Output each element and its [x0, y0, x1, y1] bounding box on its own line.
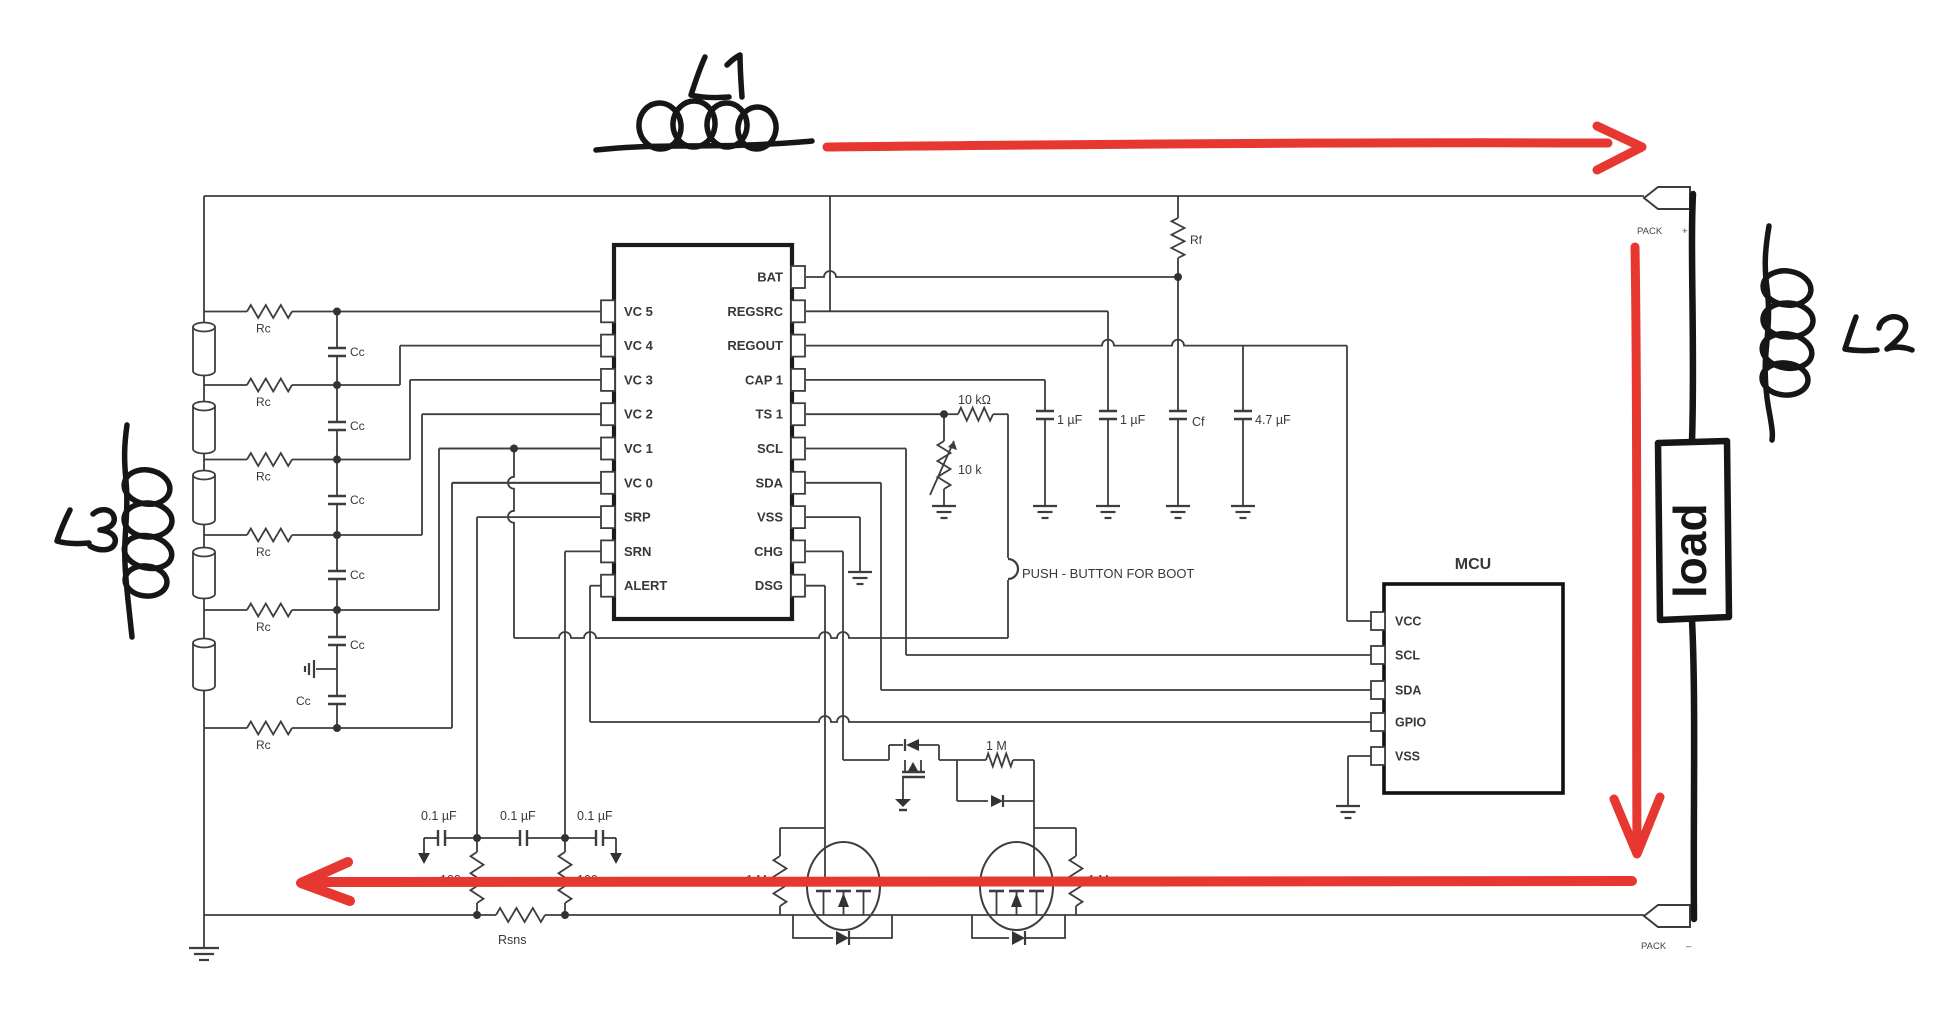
- svg-text:Rc: Rc: [256, 395, 271, 409]
- svg-text:Cc: Cc: [350, 638, 365, 652]
- battery cell B4: [193, 548, 215, 599]
- capacitor Cc5: [328, 637, 346, 645]
- label Rc 4: [256, 545, 271, 559]
- label load (handwritten): [1664, 503, 1716, 598]
- svg-text:–: –: [1686, 941, 1692, 952]
- label Cc4: [350, 568, 365, 582]
- pin VC 2 (left): [601, 403, 615, 425]
- ground 1uF #1: [1033, 506, 1057, 518]
- svg-text:1 M: 1 M: [986, 739, 1007, 753]
- wire REGSRC to 1uF cap #2: [806, 311, 1108, 411]
- wire MCU VSS to ground: [1348, 756, 1371, 806]
- label pin SRN: [624, 544, 651, 559]
- label Cf: [1192, 415, 1205, 429]
- node Rc2/Cc: [333, 381, 341, 389]
- label 10 k: [958, 463, 982, 477]
- pin SRN (left): [601, 540, 615, 562]
- inductor L1 (hand coil) loops: [636, 99, 779, 151]
- wire VC1 row: [439, 448, 601, 450]
- svg-text:1 µF: 1 µF: [1057, 413, 1083, 427]
- svg-text:GPIO: GPIO: [1395, 716, 1427, 730]
- svg-text:Cc: Cc: [296, 694, 311, 708]
- resistor 1M gate M1: [774, 828, 787, 915]
- svg-text:0.1 µF: 0.1 µF: [421, 809, 457, 823]
- wire VC0 down to row 6: [452, 482, 601, 484]
- battery cell B3: [193, 471, 215, 525]
- label pin SRP: [624, 510, 651, 525]
- svg-text:Rsns: Rsns: [498, 933, 526, 947]
- battery cell B1: [193, 323, 215, 376]
- wire REGSRC riser to top rail: [829, 196, 831, 311]
- resistor Rc row 2 and wire to VC4: [204, 346, 601, 392]
- IC body (battery monitor): [614, 245, 792, 619]
- pin MCU SDA: [1371, 681, 1385, 699]
- svg-text:REGOUT: REGOUT: [727, 338, 783, 353]
- wire push-button riser: [1007, 414, 1009, 638]
- label pin REGOUT: [727, 338, 783, 353]
- pin CHG (right): [791, 540, 805, 562]
- pin REGSRC (right): [791, 300, 805, 322]
- resistor Rc row 3 and wire to VC3: [204, 380, 601, 466]
- svg-text:VC 2: VC 2: [624, 407, 653, 422]
- svg-text:VC 3: VC 3: [624, 372, 653, 387]
- svg-text:CHG: CHG: [754, 544, 783, 559]
- MOSFET Q2 gate bar: [990, 883, 1044, 885]
- svg-text:SCL: SCL: [757, 441, 783, 456]
- wire Cc column seg5: [336, 579, 338, 637]
- hand wire PACK+ to load: [1692, 194, 1693, 441]
- wire Rf node down to Cf: [1177, 277, 1179, 411]
- node SRP filter: [473, 834, 481, 842]
- wire ALERT to MCU GPIO (hops DSG CHG): [590, 586, 1371, 722]
- svg-text:SDA: SDA: [756, 475, 784, 490]
- wire top rail (BAT+ to PACK+): [204, 195, 1644, 197]
- MCU body: [1384, 584, 1563, 793]
- pin MCU VCC: [1371, 612, 1385, 630]
- svg-text:Rc: Rc: [256, 738, 271, 752]
- label 1uF #2: [1120, 413, 1146, 427]
- capacitor Cc6: [328, 696, 346, 704]
- wire bottom rail right segment (Rsns to PACK-): [545, 914, 1644, 916]
- battery cell B2: [193, 402, 215, 454]
- label pin VC 2: [624, 407, 653, 422]
- label Rc 5: [256, 620, 271, 634]
- inductor L2 (hand coil) spine: [1765, 226, 1772, 440]
- wire BAT to Rf node (hop over REGSRC riser): [806, 271, 1178, 277]
- label pin VC 3: [624, 372, 653, 387]
- resistor 100 #1: [471, 838, 484, 915]
- annotation arrow left (bottom, red): [301, 862, 1632, 901]
- label MCU SCL: [1395, 649, 1420, 663]
- wire boot line to VC1 node (hops SRN ALERT DSG CHG): [514, 632, 1008, 638]
- wire Cc column seg3: [336, 430, 338, 496]
- wire 4.7uF tap: [1242, 346, 1244, 411]
- MOSFET Q1 (DSG) body: [807, 842, 880, 930]
- svg-text:VC 4: VC 4: [624, 338, 654, 353]
- label pin VSS: [757, 510, 783, 525]
- svg-text:Rf: Rf: [1190, 233, 1203, 247]
- capacitor Cc3: [328, 496, 346, 504]
- MOSFET Q1 stubs: [824, 891, 864, 915]
- resistor 10 kOhm: [944, 408, 1008, 421]
- label pin CHG: [754, 544, 783, 559]
- svg-text:Rc: Rc: [256, 545, 271, 559]
- pin BAT (right): [791, 266, 805, 288]
- pin VC 4 (left): [601, 335, 615, 357]
- label 0.1uF #2: [500, 809, 536, 823]
- node Rc3/Cc: [333, 456, 341, 464]
- diode D2 (CHG pull): [957, 795, 1034, 807]
- capacitor Cc2: [328, 422, 346, 430]
- wire SRP down to sense node: [477, 517, 601, 838]
- thermistor 10 k: [930, 414, 957, 506]
- wire SRN down to sense node: [565, 551, 601, 838]
- svg-text:10 k: 10 k: [958, 463, 982, 477]
- resistor Rsns: [496, 908, 545, 922]
- ground Cf: [1166, 506, 1190, 518]
- svg-text:Rc: Rc: [256, 322, 271, 336]
- svg-text:VC 0: VC 0: [624, 475, 653, 490]
- wire CHG down to gate driver: [806, 551, 843, 760]
- label Rf: [1190, 233, 1203, 247]
- pin REGOUT (right): [791, 335, 805, 357]
- svg-text:Cc: Cc: [350, 568, 365, 582]
- inductor L2 (hand coil) loops: [1759, 268, 1814, 397]
- svg-text:VC 5: VC 5: [624, 304, 653, 319]
- load box: [1658, 441, 1729, 620]
- label PUSH - BUTTON FOR BOOT: [1022, 566, 1194, 581]
- svg-text:SRN: SRN: [624, 544, 651, 559]
- wire REGOUT to MCU VCC (hops 2 risers): [806, 340, 1371, 621]
- svg-text:Rc: Rc: [256, 620, 271, 634]
- node Rsns right: [561, 911, 569, 919]
- node Rf/BAT: [1174, 273, 1182, 281]
- MOSFET Q1 channel: [816, 890, 871, 893]
- wire CHG gate link: [1034, 760, 1076, 884]
- label MCU GPIO: [1395, 716, 1427, 730]
- svg-text:1 µF: 1 µF: [1120, 413, 1146, 427]
- transistor Q3 (driver): [902, 760, 925, 777]
- svg-text:Cf: Cf: [1192, 415, 1205, 429]
- label Cc3: [350, 493, 365, 507]
- capacitor 0.1uF #3: [596, 830, 603, 846]
- terminal PACK+: [1644, 187, 1690, 209]
- node TS1: [940, 410, 948, 418]
- pin SRP (left): [601, 506, 615, 528]
- svg-text:PUSH - BUTTON FOR BOOT: PUSH - BUTTON FOR BOOT: [1022, 566, 1194, 581]
- label 1uF #1: [1057, 413, 1083, 427]
- ground thermistor: [932, 506, 956, 518]
- label Cc1: [350, 345, 365, 359]
- ground stub for Cc (sideways): [305, 660, 337, 678]
- inductor L1 (hand coil) spine: [596, 141, 812, 150]
- capacitor 0.1uF #1: [438, 830, 445, 846]
- label pin VC 0: [624, 475, 653, 490]
- diode D1 (over driver): [889, 739, 939, 751]
- wire bottom rail left segment (to Rsns): [204, 914, 496, 916]
- svg-text:PACK: PACK: [1641, 941, 1667, 952]
- wire Cc column seg4: [336, 504, 338, 571]
- wire TS 1 to thermistor node: [806, 413, 944, 415]
- resistor 1M gate M2: [1070, 828, 1083, 915]
- node Rc5/Cc: [333, 606, 341, 614]
- pin VC 0 (left): [601, 472, 615, 494]
- label pin REGSRC: [727, 304, 783, 319]
- svg-text:CAP 1: CAP 1: [745, 372, 783, 387]
- svg-text:VSS: VSS: [757, 510, 783, 525]
- terminal arrow right: [610, 838, 622, 864]
- svg-text:PACK: PACK: [1637, 226, 1663, 237]
- ground 4.7uF: [1231, 506, 1255, 518]
- label PACK-: [1641, 941, 1692, 952]
- MOSFET Q1 gate: [816, 828, 870, 884]
- resistor 100 #2: [559, 838, 572, 915]
- resistor Rc row 4 and wire to VC2: [204, 414, 601, 541]
- label 0.1uF #3: [577, 809, 613, 823]
- MOSFET Q1 body diode: [793, 915, 892, 945]
- label 100 #2: [577, 873, 598, 887]
- MOSFET Q2 (CHG) body: [980, 842, 1053, 930]
- wire 0.1uF row: [424, 837, 616, 839]
- ground MCU VSS: [1336, 806, 1360, 818]
- label L1 (handwritten): [691, 55, 742, 98]
- svg-text:10 kΩ: 10 kΩ: [958, 393, 991, 407]
- pin VSS (right): [791, 506, 805, 528]
- wire Cc column seg7: [336, 704, 338, 728]
- pin DSG (right): [791, 575, 805, 597]
- label pin BAT: [757, 270, 783, 285]
- node SRN filter: [561, 834, 569, 842]
- ground VSS: [848, 572, 872, 584]
- inductor L3 (hand coil) spine: [125, 425, 132, 637]
- label pin VC 1: [624, 441, 653, 456]
- wire VC1 node riser (hops VC0 SRP rows): [508, 449, 514, 639]
- terminal arrow left: [418, 838, 430, 864]
- svg-text:ALERT: ALERT: [624, 578, 667, 593]
- wire VSS to ground: [806, 517, 860, 572]
- capacitor Cf: [1169, 411, 1187, 506]
- svg-text:load: load: [1664, 503, 1716, 598]
- label MCU VSS: [1395, 750, 1420, 764]
- node Rc6/Cc: [333, 724, 341, 732]
- label MCU: [1455, 556, 1491, 573]
- label 4.7uF: [1255, 413, 1291, 427]
- pin VC 1 (left): [601, 438, 615, 460]
- ground 1uF #2: [1096, 506, 1120, 518]
- inductor L3 (hand coil) loops: [121, 466, 175, 598]
- capacitor 1uF #2: [1099, 411, 1117, 506]
- svg-text:Cc: Cc: [350, 345, 365, 359]
- hand wire load to PACK-: [1692, 620, 1694, 919]
- label Rc 6: [256, 738, 271, 752]
- MOSFET Q2 stubs: [997, 891, 1037, 915]
- push-button for boot: [1008, 559, 1018, 579]
- MOSFET Q2 body diode: [972, 915, 1065, 945]
- label 100 #1: [440, 873, 461, 887]
- svg-text:Cc: Cc: [350, 493, 365, 507]
- pin MCU GPIO: [1371, 713, 1385, 731]
- svg-text:DSG: DSG: [755, 578, 783, 593]
- MOSFET Q2 channel: [989, 890, 1044, 893]
- resistor Rc row 6 and wire to VC0: [204, 483, 601, 735]
- pin VC 3 (left): [601, 369, 615, 391]
- pin MCU SCL: [1371, 646, 1385, 664]
- MOSFET Q2 source arrow: [1011, 893, 1022, 907]
- capacitor 0.1uF #2: [520, 830, 527, 846]
- node VC1/boot: [510, 445, 518, 453]
- annotation arrow right (top, red): [827, 126, 1642, 170]
- wire SCL to MCU: [806, 449, 1371, 656]
- svg-text:0.1 µF: 0.1 µF: [577, 809, 613, 823]
- svg-text:SCL: SCL: [1395, 649, 1420, 663]
- svg-text:Cc: Cc: [350, 419, 365, 433]
- node Rc1/Cc: [333, 308, 341, 316]
- label L3 (handwritten): [57, 510, 115, 550]
- label Rc 3: [256, 470, 271, 484]
- resistor 1M (CHG pull): [957, 754, 1034, 802]
- wire DSG down to DSG FET gate: [806, 586, 825, 828]
- pin CAP 1 (right): [791, 369, 805, 391]
- node Rc4/Cc: [333, 531, 341, 539]
- pin SDA (right): [791, 472, 805, 494]
- label Cc2: [350, 419, 365, 433]
- svg-text:0.1 µF: 0.1 µF: [500, 809, 536, 823]
- label pin SCL: [757, 441, 783, 456]
- battery cell B5: [193, 639, 215, 691]
- resistor Rf: [1172, 196, 1185, 277]
- svg-text:+: +: [1682, 226, 1688, 237]
- wire Cc column seg2: [336, 356, 338, 422]
- MOSFET Q1 source arrow: [838, 893, 849, 907]
- capacitor 4.7uF: [1234, 411, 1252, 506]
- svg-text:Rc: Rc: [256, 470, 271, 484]
- wire battery stack column: [203, 196, 205, 915]
- pin MCU VSS: [1371, 747, 1385, 765]
- label 1M gate M2: [1088, 873, 1109, 887]
- capacitor Cc4: [328, 571, 346, 579]
- pin VC 5 (left): [601, 300, 615, 322]
- pin TS 1 (right): [791, 403, 805, 425]
- label 0.1uF #1: [421, 809, 457, 823]
- capacitor Cc1: [328, 348, 346, 356]
- label Rc 1: [256, 322, 271, 336]
- label Cc6: [296, 694, 311, 708]
- label pin CAP 1: [745, 372, 783, 387]
- label pin TS 1: [756, 407, 783, 422]
- node Rsns left: [473, 911, 481, 919]
- svg-text:SDA: SDA: [1395, 684, 1421, 698]
- wire SDA to MCU: [806, 483, 1371, 690]
- svg-text:BAT: BAT: [757, 270, 783, 285]
- resistor Rc row 1 and wire to VC5: [204, 305, 601, 318]
- wire Cc column seg6: [336, 645, 338, 696]
- svg-text:VSS: VSS: [1395, 750, 1420, 764]
- wire CHG driver node: [843, 745, 957, 760]
- label 1M gate M1: [746, 873, 767, 887]
- wire CAP 1 to 1uF cap #1: [806, 380, 1045, 411]
- label pin ALERT: [624, 578, 667, 593]
- label Rc 2: [256, 395, 271, 409]
- label 1M (CHG pull): [986, 739, 1007, 753]
- svg-text:TS 1: TS 1: [756, 407, 783, 422]
- svg-text:MCU: MCU: [1455, 556, 1491, 573]
- annotation arrow down (right, red): [1614, 247, 1660, 854]
- svg-text:4.7 µF: 4.7 µF: [1255, 413, 1291, 427]
- terminal arrow driver source: [895, 777, 911, 810]
- label pin VC 5: [624, 304, 653, 319]
- label pin VC 4: [624, 338, 654, 353]
- label L2 (handwritten): [1845, 317, 1912, 351]
- label Cc5: [350, 638, 365, 652]
- pin SCL (right): [791, 438, 805, 460]
- label pin SDA: [756, 475, 784, 490]
- label Rsns: [498, 933, 526, 947]
- wire Cc column seg1: [336, 312, 338, 349]
- label PACK+: [1637, 226, 1688, 237]
- terminal PACK-: [1644, 905, 1690, 927]
- label 10 kOhm: [958, 393, 991, 407]
- svg-text:VCC: VCC: [1395, 615, 1421, 629]
- label MCU SDA: [1395, 684, 1421, 698]
- svg-text:VC 1: VC 1: [624, 441, 653, 456]
- label MCU VCC: [1395, 615, 1421, 629]
- resistor Rc row 5 and wire to VC1: [204, 449, 601, 617]
- capacitor 1uF #1: [1036, 411, 1054, 506]
- pin ALERT (left): [601, 575, 615, 597]
- svg-text:SRP: SRP: [624, 510, 651, 525]
- wire DSG gate link: [780, 827, 825, 829]
- svg-text:REGSRC: REGSRC: [727, 304, 783, 319]
- label pin DSG: [755, 578, 783, 593]
- ground battery bottom: [189, 915, 219, 960]
